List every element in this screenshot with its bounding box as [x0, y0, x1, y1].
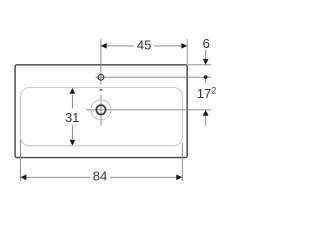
dim 84 extension line left: [19, 140, 21, 182]
svg-text:84: 84: [93, 169, 107, 184]
dim 84 extension line right: [181, 143, 183, 181]
dim 84 arrow left: [21, 174, 27, 180]
overflow slot ellipse: [100, 89, 103, 91]
dim 31 arrow down: [70, 140, 76, 146]
dim 45 arrow right: [181, 43, 187, 49]
washbasin inner basin outline: [21, 88, 183, 146]
svg-text:45: 45: [137, 38, 151, 53]
dim 31 dimension line upper segment: [71, 95, 73, 109]
drain centerline vertical: [100, 95, 102, 126]
dim 45 arrow left: [101, 43, 107, 49]
dim 17 arrow up: [203, 110, 209, 116]
dim 17 dimension line tail below arrow: [205, 116, 207, 126]
tap hole centerline vertical (extension for dim 45): [100, 39, 102, 85]
dim 45 dimension line left segment: [101, 45, 134, 47]
dim 6 arrow down: [203, 59, 209, 65]
washbasin outer rim outline: [15, 65, 187, 158]
drain inner circle: [96, 105, 105, 114]
drain outer circle: [91, 100, 111, 120]
dim 31 arrow up: [70, 88, 76, 94]
svg-text:6: 6: [203, 36, 210, 51]
dim 17 dot terminator: [204, 75, 208, 79]
dim 84 dimension line left segment: [20, 176, 90, 178]
dim 6 dimension line tail: [205, 50, 207, 60]
dim 31 dimension line lower segment: [71, 125, 73, 139]
svg-text:172: 172: [197, 86, 217, 102]
dim 17 dimension line stub below dot: [205, 79, 207, 83]
drain centerline horizontal (extension for dim 17): [86, 109, 211, 111]
dim 45 dimension line right segment: [154, 45, 187, 47]
dim 45 extension line right: [186, 39, 188, 65]
dim 84 arrow right: [176, 174, 182, 180]
tap hole circle: [98, 74, 104, 80]
dim 84 dimension line right segment: [110, 176, 182, 178]
tap hole centerline horizontal (extension for dims 6/17): [95, 76, 211, 78]
extension line top edge right (for dim 6): [188, 64, 211, 66]
svg-text:31: 31: [65, 110, 79, 125]
